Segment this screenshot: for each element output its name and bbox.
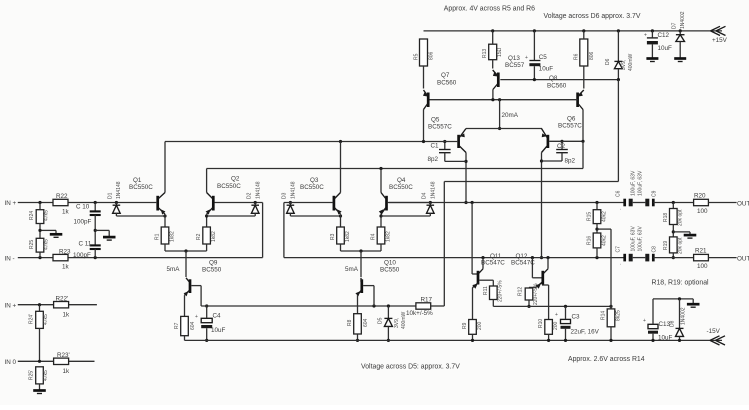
- svg-text:604: 604: [363, 318, 369, 327]
- transistor Q7: [423, 90, 428, 142]
- resistor R1: [155, 227, 187, 251]
- svg-text:22uF, 16V: 22uF, 16V: [571, 329, 600, 336]
- svg-text:100uF, 63V: 100uF, 63V: [638, 170, 644, 196]
- resistor R24b: [29, 305, 50, 362]
- svg-text:BC557C: BC557C: [428, 124, 452, 131]
- svg-text:BC560: BC560: [437, 80, 457, 87]
- svg-text:C9: C9: [652, 190, 658, 197]
- node tail pair2: [359, 249, 362, 277]
- svg-text:R16: R16: [587, 236, 593, 245]
- transistor Q10: [355, 278, 374, 314]
- svg-text:D8: D8: [670, 320, 676, 327]
- svg-text:Q5: Q5: [431, 117, 440, 124]
- svg-text:R10: R10: [538, 319, 544, 328]
- svg-text:C2: C2: [557, 143, 566, 150]
- svg-text:3V9,: 3V9,: [621, 60, 627, 70]
- svg-text:20mA: 20mA: [502, 112, 519, 119]
- svg-text:D7: D7: [672, 22, 678, 29]
- node tail pair1: [184, 249, 187, 277]
- wire C9 to R20: [653, 201, 693, 204]
- svg-text:15Ω: 15Ω: [497, 47, 503, 57]
- wire Q2/Q4 collectors to Q6 base: [207, 141, 583, 170]
- ground at divider: [38, 229, 62, 238]
- diode D6 zener: [605, 31, 634, 80]
- wire Q12 emitter to R10: [542, 285, 549, 320]
- svg-text:Approx. 4V across R5 and R6: Approx. 4V across R5 and R6: [444, 6, 535, 13]
- svg-text:D6: D6: [605, 58, 611, 65]
- svg-text:10k+/-5%: 10k+/-5%: [406, 310, 433, 317]
- svg-text:Q4: Q4: [397, 177, 406, 184]
- resistor R4: [361, 227, 392, 251]
- diode D2: [247, 181, 262, 216]
- transistor Q3: [284, 142, 342, 228]
- svg-text:+: +: [555, 312, 558, 318]
- svg-text:D5: D5: [378, 317, 384, 324]
- svg-text:R13: R13: [482, 49, 488, 58]
- annotation R18 R19 optional: [652, 280, 710, 287]
- wire output node line: [493, 305, 612, 308]
- resistor R12: [518, 283, 540, 308]
- +15V terminal: [711, 26, 728, 44]
- resistor R2: [186, 227, 217, 251]
- svg-text:R15: R15: [587, 212, 593, 221]
- resistor R6: [574, 31, 596, 89]
- wire IN+ line: [5, 200, 157, 207]
- svg-text:100uF, 63V: 100uF, 63V: [631, 170, 637, 196]
- node rail junction dots: [491, 29, 682, 32]
- annotation R14: [568, 356, 645, 363]
- resistor R15: [587, 203, 608, 234]
- svg-text:BC550C: BC550C: [217, 183, 241, 190]
- wire IN0 aux line: [5, 359, 95, 366]
- svg-text:1k82: 1k82: [345, 231, 351, 242]
- ground at aux divider: [33, 391, 46, 394]
- svg-text:+: +: [644, 33, 647, 39]
- svg-text:1k: 1k: [63, 368, 71, 375]
- svg-text:R2: R2: [196, 233, 202, 240]
- svg-text:C3: C3: [572, 314, 581, 321]
- svg-text:806: 806: [429, 51, 435, 60]
- wire Q6 base to R6: [549, 140, 584, 143]
- svg-text:BC560: BC560: [547, 83, 567, 90]
- capacitor C1: [428, 140, 467, 163]
- svg-text:Voltage across D5: approx. 3.7: Voltage across D5: approx. 3.7V: [361, 364, 460, 371]
- resistor R25b: [29, 367, 50, 390]
- svg-text:R23': R23': [57, 352, 70, 359]
- ground at C12: [646, 59, 658, 62]
- svg-text:8k25: 8k25: [616, 310, 622, 321]
- resistor R22: [53, 193, 70, 216]
- svg-text:8p2: 8p2: [565, 158, 576, 165]
- wire main lower bus Q3 base drop to OUT line: [284, 203, 625, 260]
- svg-text:BC557C: BC557C: [558, 123, 582, 130]
- svg-text:Q9: Q9: [209, 260, 218, 267]
- svg-text:R11: R11: [483, 286, 489, 295]
- transistor Q8 label: [547, 75, 567, 90]
- svg-text:R24': R24': [29, 314, 35, 324]
- svg-text:3V9,: 3V9,: [394, 318, 400, 328]
- svg-text:BC550C: BC550C: [300, 184, 324, 191]
- resistor R24: [29, 203, 50, 239]
- transistor Q3 label: [300, 177, 324, 191]
- -15V terminal: [707, 328, 726, 345]
- resistor R9: [462, 320, 483, 343]
- resistor R25: [29, 238, 50, 257]
- svg-text:C 11: C 11: [79, 241, 92, 248]
- svg-text:BC547C: BC547C: [511, 260, 535, 267]
- wire feedback top link D6 to R17: [444, 80, 618, 306]
- svg-text:806: 806: [589, 51, 595, 60]
- svg-text:10uF: 10uF: [211, 327, 226, 334]
- svg-text:+: +: [525, 55, 528, 61]
- svg-text:R5: R5: [414, 53, 420, 60]
- wire C8 to R21: [653, 257, 693, 259]
- wire Q1/Q3 collectors to Q5 base: [165, 140, 457, 143]
- transistor Q4 label: [389, 177, 413, 191]
- svg-text:R6: R6: [574, 53, 580, 60]
- resistor R17: [406, 297, 444, 318]
- diode D7: [672, 11, 687, 58]
- ground at C13: [687, 304, 700, 307]
- svg-text:BC550: BC550: [202, 267, 222, 274]
- transistor Q1 label: [129, 177, 153, 191]
- transistor Q1: [158, 142, 166, 228]
- transistor Q6: [540, 129, 548, 260]
- svg-text:400mW: 400mW: [628, 53, 634, 71]
- svg-text:10uF: 10uF: [539, 66, 554, 73]
- svg-text:Q1: Q1: [133, 177, 142, 184]
- wire C6-C9 link: [633, 202, 646, 204]
- svg-text:1k82: 1k82: [170, 231, 176, 242]
- svg-text:R18, R19: optional: R18, R19: optional: [652, 280, 710, 287]
- svg-text:10uF: 10uF: [658, 45, 673, 52]
- transistor Q5: [459, 129, 468, 205]
- wire IN- line: [5, 203, 263, 263]
- resistor R10: [538, 319, 559, 342]
- svg-text:R25': R25': [29, 370, 35, 380]
- svg-text:C8: C8: [652, 246, 658, 253]
- svg-text:200: 200: [553, 321, 559, 330]
- svg-text:100pF: 100pF: [73, 252, 91, 259]
- svg-text:IN -: IN -: [5, 255, 15, 262]
- annotation D6: [544, 13, 641, 20]
- svg-text:20k opt: 20k opt: [678, 209, 684, 226]
- svg-text:5mA: 5mA: [345, 266, 359, 273]
- capacitor C9: [631, 170, 658, 206]
- wire +15V top rail: [424, 30, 723, 32]
- svg-text:C 10: C 10: [76, 204, 90, 211]
- resistor R13: [482, 31, 503, 69]
- svg-text:R23: R23: [59, 249, 71, 256]
- svg-text:Q6: Q6: [567, 116, 576, 123]
- svg-text:100pF: 100pF: [74, 219, 92, 226]
- svg-text:Q10: Q10: [384, 260, 396, 267]
- svg-text:IN +: IN +: [5, 200, 17, 207]
- svg-text:C4: C4: [213, 313, 222, 320]
- transistor Q9 label: [167, 260, 222, 274]
- svg-text:1N4148: 1N4148: [256, 181, 262, 199]
- wire Q11 emitter to R11: [479, 280, 493, 286]
- svg-text:.: .: [620, 206, 621, 212]
- svg-text:R8: R8: [347, 319, 353, 326]
- svg-text:47k5: 47k5: [44, 210, 50, 221]
- svg-text:100: 100: [697, 263, 708, 270]
- svg-text:IN +: IN +: [5, 302, 17, 309]
- transistor Q12: [529, 258, 548, 289]
- wire -15V bottom rail: [185, 339, 723, 341]
- svg-text:Q2: Q2: [231, 176, 240, 183]
- svg-text:BC550C: BC550C: [389, 184, 413, 191]
- resistor R3: [330, 227, 361, 251]
- svg-text:BC550C: BC550C: [129, 184, 153, 191]
- svg-text:47k5: 47k5: [44, 239, 50, 250]
- transistor Q6 label: [558, 116, 582, 130]
- svg-text:5mA: 5mA: [167, 266, 181, 273]
- transistor Q11 label: [481, 253, 505, 267]
- svg-text:220+/-5%: 220+/-5%: [533, 283, 539, 305]
- capacitor C2: [542, 140, 576, 165]
- svg-text:R21: R21: [695, 248, 707, 255]
- svg-text:D4: D4: [422, 192, 428, 199]
- svg-text:40k2: 40k2: [602, 211, 608, 222]
- svg-text:8p2: 8p2: [428, 156, 439, 163]
- svg-text:1k: 1k: [63, 312, 71, 319]
- svg-text:10uF: 10uF: [658, 335, 673, 342]
- transistor Q13 label: [505, 55, 525, 69]
- svg-text:R9: R9: [462, 322, 468, 329]
- transistor Q2: [205, 169, 263, 228]
- svg-text:+: +: [643, 318, 646, 324]
- svg-text:C1: C1: [431, 143, 440, 150]
- svg-text:1N4148: 1N4148: [431, 181, 437, 199]
- ground at D7: [674, 59, 686, 62]
- svg-text:R1: R1: [155, 233, 161, 240]
- annotation top: [444, 6, 535, 13]
- svg-text:R17: R17: [421, 297, 433, 304]
- capacitor C8: [631, 226, 658, 262]
- resistor R23: [53, 249, 71, 271]
- resistor R19: [663, 237, 684, 259]
- resistor R22b: [54, 296, 70, 319]
- svg-text:+15V: +15V: [712, 37, 728, 44]
- resistor R5: [414, 39, 435, 89]
- svg-text:BC550: BC550: [380, 267, 400, 274]
- svg-text:200: 200: [477, 321, 483, 330]
- svg-text:R22: R22: [56, 193, 68, 200]
- svg-text:20k opt: 20k opt: [678, 237, 684, 254]
- svg-text:Q13: Q13: [508, 55, 520, 62]
- annotation D5: [361, 364, 460, 371]
- resistor R20: [694, 193, 737, 216]
- svg-text:R22': R22': [56, 296, 69, 303]
- capacitor C6: [616, 190, 633, 211]
- wire Q4 emitter to D4 anode: [381, 215, 430, 217]
- svg-text:1N4002: 1N4002: [680, 11, 686, 29]
- svg-text:1N4148: 1N4148: [291, 181, 297, 199]
- diode D3: [282, 181, 297, 216]
- capacitor C11: [73, 241, 101, 260]
- resistor R14: [601, 306, 622, 342]
- svg-text:1k: 1k: [62, 209, 70, 216]
- capacitor C5: [525, 31, 553, 80]
- resistor R11: [483, 280, 504, 306]
- wire Q13 base / C5 / D6 bus: [500, 78, 620, 81]
- wire 20mA drop: [498, 100, 519, 130]
- wire main upper bus Q4 base / D4 / VAS out: [389, 201, 625, 204]
- svg-text:R24: R24: [29, 211, 35, 220]
- svg-text:D2: D2: [247, 192, 253, 199]
- svg-text:R3: R3: [330, 233, 336, 240]
- svg-text:1k82: 1k82: [386, 231, 392, 242]
- transistor Q8: [578, 90, 584, 141]
- transistor Q13: [493, 70, 499, 100]
- svg-text:IN 0: IN 0: [5, 359, 17, 366]
- svg-text:BC547C: BC547C: [481, 260, 505, 267]
- svg-text:1k82: 1k82: [211, 231, 217, 242]
- transistor Q5 label: [428, 117, 452, 131]
- resistor R16: [587, 233, 608, 258]
- svg-text:R14: R14: [601, 311, 607, 320]
- svg-text:Approx. 2.6V across R14: Approx. 2.6V across R14: [568, 356, 645, 363]
- wire C7-C8 link: [633, 257, 646, 259]
- svg-text:OUT: OUT: [737, 200, 749, 207]
- svg-text:100uF, 63V: 100uF, 63V: [631, 226, 637, 252]
- wire D3 anode to Q3 emitter: [290, 214, 342, 217]
- svg-text:R19: R19: [663, 241, 669, 250]
- ground at C10/C11: [95, 230, 115, 240]
- wire D1 anode to Q1 emitter: [116, 214, 166, 217]
- svg-text:R25: R25: [29, 240, 35, 249]
- node OUT upper: [737, 200, 749, 207]
- svg-text:1N4148: 1N4148: [116, 181, 122, 199]
- wire C13/D8 to ground: [653, 297, 693, 303]
- wire Q7-Q8 base bus: [430, 98, 578, 101]
- svg-text:BC557: BC557: [505, 62, 525, 69]
- svg-text:OUT: OUT: [737, 255, 749, 262]
- svg-text:Q8: Q8: [549, 75, 558, 82]
- svg-text:D1: D1: [108, 192, 114, 199]
- svg-text:R12: R12: [518, 287, 524, 296]
- svg-text:D3: D3: [282, 192, 288, 199]
- svg-text:-15V: -15V: [707, 328, 721, 335]
- svg-text:47k5: 47k5: [43, 314, 49, 325]
- resistor R8: [347, 314, 369, 342]
- svg-text:Voltage across D6 approx. 3.7: Voltage across D6 approx. 3.7V: [544, 13, 641, 20]
- svg-text:C7: C7: [616, 246, 622, 253]
- capacitor C4: [195, 304, 226, 342]
- diode D4: [422, 181, 437, 216]
- svg-text:47k5: 47k5: [43, 370, 49, 381]
- transistor Q10 label: [345, 260, 400, 274]
- svg-text:+: +: [195, 314, 198, 320]
- svg-text:C5: C5: [539, 54, 548, 61]
- wire feedback base line Q9/Q10/R17: [201, 304, 416, 307]
- svg-text:220+/-5%: 220+/-5%: [498, 280, 504, 302]
- transistor Q4: [379, 169, 431, 228]
- transistor Q9: [184, 278, 202, 317]
- resistor R23b: [54, 352, 70, 375]
- diode D5 zener: [378, 306, 408, 342]
- wire R15/R16 tap to output node: [595, 228, 611, 307]
- svg-text:100uF, 63V: 100uF, 63V: [638, 226, 644, 252]
- svg-text:C6: C6: [616, 190, 622, 197]
- svg-text:Q7: Q7: [441, 72, 450, 79]
- capacitor C3: [555, 306, 600, 342]
- svg-text:.: .: [620, 261, 621, 267]
- transistor Q7 label: [437, 72, 457, 87]
- diode D1: [108, 181, 123, 216]
- svg-text:100: 100: [697, 208, 708, 215]
- capacitor C13: [643, 299, 673, 342]
- resistor R21: [694, 248, 737, 271]
- capacitor C12: [644, 31, 672, 58]
- svg-text:C12: C12: [658, 32, 670, 39]
- svg-text:604: 604: [190, 321, 196, 330]
- diode D8: [670, 299, 687, 342]
- svg-text:1k: 1k: [62, 264, 70, 271]
- svg-text:R4: R4: [371, 233, 377, 240]
- svg-text:R18: R18: [663, 213, 669, 222]
- resistor R7: [174, 316, 196, 340]
- wire IN+ aux line: [5, 302, 97, 309]
- wire Q5/Q6 emitter rail: [466, 128, 542, 130]
- svg-text:1N4002: 1N4002: [681, 307, 687, 325]
- node OUT lower: [737, 255, 749, 262]
- ground at R18/R19: [673, 232, 696, 238]
- capacitor C10: [74, 203, 101, 246]
- transistor Q11: [472, 203, 483, 320]
- resistor R18: [663, 203, 684, 237]
- svg-text:R20: R20: [694, 193, 706, 200]
- svg-text:R7: R7: [174, 322, 180, 329]
- svg-text:Q3: Q3: [310, 177, 319, 184]
- capacitor C7: [616, 246, 633, 267]
- transistor Q2 label: [217, 176, 241, 191]
- wire Q2 emitter to D2 anode: [207, 215, 256, 217]
- transistor Q12 label: [511, 253, 535, 267]
- svg-text:40k2: 40k2: [602, 235, 608, 246]
